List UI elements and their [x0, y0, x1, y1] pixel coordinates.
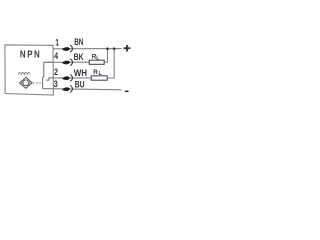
svg-text:BK: BK: [74, 52, 84, 62]
minus terminal: [125, 90, 129, 92]
resistor RL1 (BK load): [89, 60, 104, 64]
inner stub from pin2: [46, 78, 53, 80]
resistor RL2 (WH load): [91, 76, 107, 80]
junction dot A: [106, 47, 109, 50]
dashed actuation line: [33, 82, 41, 84]
wire 4 BK: [44, 61, 89, 63]
svg-text:2: 2: [54, 67, 58, 77]
svg-text:3: 3: [54, 79, 58, 89]
wire RL1 to rail: [104, 49, 107, 63]
inner wire from pin4 down: [44, 62, 53, 76]
connector plug on wire 4: [62, 59, 72, 66]
wire RL2 to rail: [107, 49, 114, 78]
junction dot B: [113, 47, 116, 50]
svg-text:1: 1: [55, 37, 59, 47]
sensor symbol side ticks: [21, 81, 23, 85]
svg-text:WH: WH: [74, 68, 88, 78]
switch arm to pin3: [42, 79, 44, 89]
wire 3 BU: [43, 89, 122, 90]
sensor box U1: [5, 45, 54, 95]
svg-text:BU: BU: [75, 79, 85, 89]
connector plug on wire 2: [62, 74, 72, 81]
svg-text:BN: BN: [74, 37, 83, 47]
connector plug on wire 3: [62, 85, 72, 92]
svg-text:NPN: NPN: [20, 49, 41, 60]
svg-text:R: R: [93, 69, 98, 76]
plus terminal: [124, 45, 131, 52]
svg-text:L: L: [96, 55, 99, 61]
svg-text:4: 4: [54, 51, 58, 61]
connector plug on wire 1: [62, 45, 72, 52]
sensor symbol diamond: [20, 77, 33, 88]
sensor symbol circle: [23, 80, 29, 86]
wire 1 BN: [53, 48, 122, 50]
coil squiggle: [18, 72, 30, 74]
switch contact tick: [42, 76, 44, 79]
svg-text:L: L: [99, 71, 102, 77]
wire 2 WH: [49, 77, 91, 79]
